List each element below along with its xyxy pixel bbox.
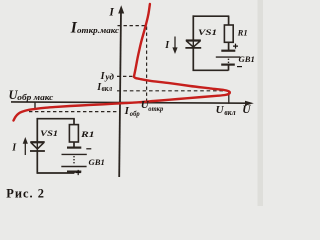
svg-text:R1: R1 — [80, 129, 95, 139]
svg-text:GB1: GB1 — [89, 157, 105, 167]
tick U_obr_maks — [34, 102, 36, 110]
wire resistor bottom lead — [73, 142, 75, 148]
minus sign — [237, 66, 242, 68]
wire resistor top lead — [228, 16, 230, 25]
svg-text:уд: уд — [104, 72, 114, 82]
wire left upper — [36, 118, 38, 142]
diode VS1 (dinistor) — [30, 141, 44, 143]
resistor R1 — [69, 125, 78, 142]
dashed line I_otkr_maks level — [118, 25, 147, 27]
X axis (U) — [11, 102, 246, 103]
tick U_vkl — [228, 92, 230, 104]
svg-text:U: U — [216, 104, 225, 116]
plus sign — [233, 44, 238, 49]
svg-text:VS1: VS1 — [198, 27, 217, 37]
plus sign — [76, 170, 81, 175]
wire bottom — [193, 69, 229, 71]
wire left upper — [192, 15, 194, 40]
wire top — [193, 15, 230, 17]
wire left lower — [36, 151, 38, 174]
svg-text:обр: обр — [130, 109, 140, 118]
svg-text:I: I — [124, 105, 130, 117]
svg-text:обр макс: обр макс — [17, 93, 53, 102]
red I-V characteristic curve — [14, 4, 230, 121]
svg-text:U: U — [242, 104, 251, 116]
minus sign — [86, 148, 91, 150]
battery GB1 — [221, 50, 235, 52]
wire top — [37, 118, 75, 120]
wire resistor bottom lead — [228, 42, 230, 50]
wire bottom — [37, 172, 74, 174]
diode VS1 (dinistor) — [186, 39, 201, 41]
svg-text:Рис. 2: Рис. 2 — [6, 187, 45, 201]
svg-text:GB1: GB1 — [239, 54, 255, 64]
svg-text:I: I — [108, 6, 114, 18]
Y axis arrowhead — [118, 5, 124, 13]
battery GB1 — [67, 147, 81, 149]
Y axis (I) — [119, 10, 121, 177]
dashed line U_otkr vertical — [146, 27, 148, 103]
dashed line I_obr level — [29, 111, 119, 113]
svg-text:R1: R1 — [237, 27, 248, 37]
svg-text:вкл: вкл — [102, 84, 113, 93]
svg-text:VS1: VS1 — [40, 128, 58, 138]
resistor R1 — [224, 25, 233, 42]
svg-text:вкл: вкл — [224, 108, 235, 117]
right scan edge shading — [258, 0, 264, 206]
svg-text:откр.макс: откр.макс — [77, 26, 119, 35]
wire left lower — [192, 48, 194, 71]
X axis arrowhead — [245, 101, 254, 106]
dashed line I_vkl level — [117, 90, 228, 92]
dashed line I_ud level — [117, 75, 134, 77]
svg-text:откр: откр — [148, 104, 163, 113]
wire resistor top lead — [73, 119, 75, 125]
